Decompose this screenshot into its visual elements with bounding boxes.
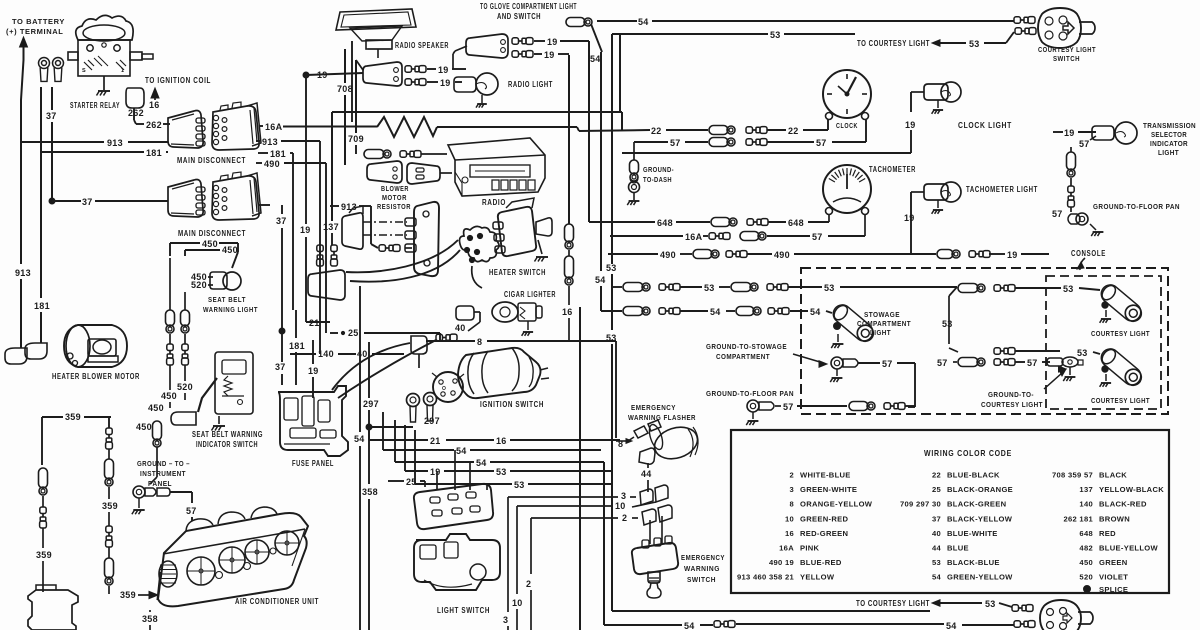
svg-text:53: 53 — [932, 558, 941, 567]
svg-text:YELLOW: YELLOW — [800, 573, 835, 582]
svg-text:53: 53 — [1077, 348, 1088, 358]
svg-text:RADIO LIGHT: RADIO LIGHT — [508, 80, 553, 89]
svg-text:358: 358 — [362, 487, 378, 497]
svg-text:O: O — [442, 386, 446, 392]
wire 53 console row — [612, 286, 622, 288]
wire 25 dotted — [330, 332, 338, 334]
seat belt warning light bulb — [223, 272, 241, 290]
svg-text:RED-GREEN: RED-GREEN — [800, 529, 848, 538]
svg-text:INDICATOR SWITCH: INDICATOR SWITCH — [196, 440, 258, 449]
resistor 709 zigzag — [377, 117, 437, 137]
svg-text:BLUE-WHITE: BLUE-WHITE — [947, 529, 998, 538]
svg-text:SELECTOR: SELECTOR — [1151, 130, 1187, 139]
arrow to battery terminal — [20, 37, 28, 47]
svg-text:PINK: PINK — [800, 544, 820, 553]
bullet connector 57 clock — [746, 139, 753, 145]
heater switch ground — [538, 240, 542, 254]
svg-text:25: 25 — [348, 328, 359, 338]
bus x620 vertical — [621, 112, 623, 130]
ignition switch plate — [433, 372, 463, 402]
svg-text:54: 54 — [595, 275, 606, 285]
svg-text:520: 520 — [177, 382, 193, 392]
wire 8 vertical — [615, 341, 617, 438]
svg-text:450: 450 — [136, 422, 152, 432]
svg-text:2: 2 — [622, 513, 627, 523]
wire 57 stowage to bottom — [858, 362, 880, 364]
svg-text:16A: 16A — [685, 232, 703, 242]
svg-text:648: 648 — [1079, 529, 1093, 538]
svg-text:GREEN-WHITE: GREEN-WHITE — [800, 485, 857, 494]
svg-text:EMERGENCY: EMERGENCY — [631, 403, 676, 412]
svg-text:137: 137 — [1079, 485, 1093, 494]
clock — [823, 70, 871, 118]
svg-text:MAIN DISCONNECT: MAIN DISCONNECT — [177, 156, 246, 165]
svg-text:57: 57 — [882, 359, 893, 369]
svg-text:709: 709 — [348, 134, 364, 144]
capsule connector 359 chain1 — [39, 468, 48, 488]
svg-text:19: 19 — [308, 366, 319, 376]
svg-text:COMPARTMENT: COMPARTMENT — [716, 352, 770, 361]
svg-text:54: 54 — [932, 573, 942, 582]
radio light ground — [481, 95, 483, 103]
svg-text:16: 16 — [785, 529, 794, 538]
bullet pair 53 bottom — [1012, 605, 1019, 611]
ground-to-dash symbol — [633, 193, 635, 200]
AC small knobs — [216, 572, 223, 579]
capsule connector 450 top — [153, 421, 162, 440]
capsule 16 b — [568, 250, 570, 256]
bullet 57 transmission — [1070, 178, 1072, 186]
wire 450 from main disconnect 2 — [169, 243, 171, 256]
wire 25 light switch — [388, 480, 404, 482]
transmission selector connector — [1092, 126, 1114, 140]
svg-text:SEAT BELT WARNING: SEAT BELT WARNING — [192, 430, 263, 439]
splice legend — [1084, 586, 1091, 593]
fuse panel fan-out curves — [332, 343, 410, 390]
bullet connector 16A — [709, 233, 716, 239]
bullet connectors below — [167, 344, 173, 351]
svg-text:WIRING COLOR CODE: WIRING COLOR CODE — [924, 448, 1012, 458]
svg-text:57: 57 — [186, 506, 197, 516]
svg-text:16: 16 — [149, 100, 160, 110]
bullet connector 19 c2 row1 — [405, 66, 412, 72]
emergency switch pin paddle 2 — [642, 509, 656, 525]
capsule connector 53 console left — [623, 283, 643, 292]
main disconnect connector A2 — [212, 106, 259, 150]
wire 54 glove diagonal — [591, 24, 602, 52]
svg-text:COURTESY LIGHT: COURTESY LIGHT — [1038, 45, 1096, 54]
heater switch body — [498, 207, 536, 256]
bullet connector 53 console left — [659, 284, 666, 290]
svg-text:44: 44 — [641, 469, 652, 479]
wire 359 into AC unit — [108, 586, 110, 594]
svg-text:2: 2 — [526, 579, 531, 589]
svg-text:40: 40 — [357, 349, 368, 359]
arrow to ignition coil — [151, 88, 159, 98]
capsule connector 57 floor pan — [849, 402, 868, 411]
svg-text:WARNING FLASHER: WARNING FLASHER — [628, 413, 696, 422]
svg-text:913 460 358 21: 913 460 358 21 — [737, 573, 794, 582]
svg-text:359: 359 — [102, 501, 118, 511]
svg-text:37: 37 — [932, 514, 941, 523]
wires light switch bundle — [368, 427, 370, 440]
wire 16A/57 row — [610, 235, 683, 237]
svg-text:BLOWER: BLOWER — [381, 184, 409, 193]
svg-text:19: 19 — [547, 37, 558, 47]
bullet 53 lower — [994, 348, 1001, 354]
svg-text:INSTRUMENT: INSTRUMENT — [140, 469, 186, 478]
clock terminals — [826, 113, 833, 120]
svg-text:TO GLOVE COMPARTMENT LIGHT: TO GLOVE COMPARTMENT LIGHT — [480, 2, 577, 11]
svg-text:19: 19 — [438, 65, 449, 75]
bullet pair 53 courtesy switch — [1015, 28, 1022, 34]
svg-text:BLACK-RED: BLACK-RED — [1099, 500, 1147, 509]
wire 54 vertical x604 lower — [603, 462, 605, 625]
stowage ground symbol — [836, 369, 838, 376]
svg-text:GREEN-YELLOW: GREEN-YELLOW — [947, 573, 1013, 582]
svg-text:708 359 57: 708 359 57 — [1052, 471, 1093, 480]
svg-text:19: 19 — [317, 70, 328, 80]
ring terminal ignition 1 — [407, 394, 420, 407]
svg-text:359: 359 — [36, 550, 52, 560]
tach light ground — [937, 200, 939, 208]
svg-text:HEATER SWITCH: HEATER SWITCH — [489, 268, 546, 277]
blower motor resistor plate — [414, 202, 439, 276]
radio connector C2 — [363, 62, 402, 86]
svg-text:648: 648 — [657, 218, 673, 228]
svg-text:TO COURTESY LIGHT: TO COURTESY LIGHT — [856, 599, 930, 608]
svg-text:10: 10 — [615, 501, 626, 511]
svg-text:57: 57 — [1052, 209, 1063, 219]
wire 54 console row — [601, 310, 622, 312]
bullet connector 359 chain2b — [106, 526, 112, 533]
heater switch toggle — [536, 218, 552, 236]
svg-text:TO BATTERY: TO BATTERY — [12, 17, 65, 26]
svg-text:37: 37 — [275, 362, 286, 372]
wires blower blob curves — [346, 240, 458, 272]
svg-text:WHITE-BLUE: WHITE-BLUE — [800, 471, 851, 480]
ring terminal floor pan console — [747, 400, 759, 412]
svg-text:262: 262 — [128, 108, 144, 118]
bullet connector 648 — [747, 219, 754, 225]
radio chassis — [448, 138, 545, 196]
elbow connector (181 end) — [25, 343, 47, 359]
wire 708 vertical — [344, 49, 346, 83]
svg-text:GREEN-RED: GREEN-RED — [800, 514, 848, 523]
wire 2 emergency — [632, 517, 638, 519]
courtesy ground connector — [1047, 358, 1063, 366]
wire 3 emergency — [630, 496, 636, 498]
stowage compartment light — [830, 301, 878, 345]
svg-text:3: 3 — [503, 615, 508, 625]
wire 137 vertical — [331, 112, 333, 221]
svg-text:10: 10 — [512, 598, 523, 608]
wire 359 chain1 — [42, 528, 44, 548]
wire 450 to indicator switch — [169, 365, 171, 390]
svg-text:BLACK-ORANGE: BLACK-ORANGE — [947, 485, 1013, 494]
junction dot 37 mid — [279, 328, 285, 334]
svg-text:57: 57 — [670, 138, 681, 148]
floor pan ground symbol top — [1090, 224, 1096, 230]
svg-text:57: 57 — [937, 358, 948, 368]
svg-text:19: 19 — [905, 120, 916, 130]
svg-text:19: 19 — [430, 467, 441, 477]
capsule connector glove compartment — [566, 18, 585, 27]
AC front edge — [163, 529, 305, 554]
courtesy light upper — [1098, 281, 1146, 325]
heater switch connector blob — [460, 226, 500, 261]
svg-text:RESISTOR: RESISTOR — [377, 202, 411, 211]
instrument panel ground symbol — [138, 498, 140, 508]
svg-text:WARNING LIGHT: WARNING LIGHT — [203, 305, 258, 314]
tach light socket — [924, 184, 948, 200]
wire 37 to main disconnect 2 — [52, 200, 81, 202]
bullet connector 53 console right — [994, 285, 1001, 291]
emergency switch plunger — [648, 572, 660, 583]
ring terminal floor pan top — [1076, 213, 1088, 225]
svg-text:53: 53 — [496, 467, 507, 477]
ring terminal ignition 2 — [424, 393, 437, 406]
svg-text:913: 913 — [15, 268, 31, 278]
svg-text:359: 359 — [120, 590, 136, 600]
radio speaker — [336, 9, 416, 30]
starter relay ground — [103, 76, 105, 90]
courtesy light lower — [1098, 345, 1146, 389]
svg-text:GREEN: GREEN — [1099, 558, 1128, 567]
emergency flasher canister — [650, 422, 701, 464]
cigar lighter ground — [527, 321, 529, 330]
air conditioner unit body — [158, 513, 308, 606]
svg-text:FUSE PANEL: FUSE PANEL — [292, 459, 334, 468]
flasher connector terminals — [634, 426, 648, 438]
svg-text:GROUND – TO –: GROUND – TO – — [137, 459, 190, 468]
svg-text:COURTESY LIGHT: COURTESY LIGHT — [981, 400, 1043, 409]
wire 8 flasher — [628, 437, 634, 441]
svg-text:54: 54 — [710, 307, 721, 317]
svg-text:140: 140 — [318, 349, 334, 359]
svg-text:BLUE-BLACK: BLUE-BLACK — [947, 471, 1000, 480]
svg-text:COMPARTMENT: COMPARTMENT — [857, 319, 911, 328]
wire 520 to indicator switch — [184, 365, 186, 381]
AC vents — [187, 557, 215, 585]
ground-to-dash ring — [629, 182, 640, 193]
wire 648 row — [589, 221, 655, 223]
transmission wire 19 — [1053, 131, 1063, 133]
svg-text:297: 297 — [363, 399, 379, 409]
svg-text:LIGHT: LIGHT — [870, 328, 891, 337]
svg-text:GROUND-TO-STOWAGE: GROUND-TO-STOWAGE — [706, 342, 787, 351]
console outer dashed box — [801, 268, 1168, 414]
wire from speaker — [351, 41, 353, 122]
svg-text:54: 54 — [946, 621, 957, 630]
svg-text:COURTESY LIGHT: COURTESY LIGHT — [1091, 329, 1150, 338]
capsule connector 53 console mid — [731, 283, 751, 292]
svg-text:TO IGNITION COIL: TO IGNITION COIL — [145, 76, 211, 85]
svg-text:VIOLET: VIOLET — [1099, 573, 1128, 582]
svg-text:8: 8 — [789, 500, 794, 509]
svg-text:53: 53 — [606, 333, 617, 343]
svg-text:913: 913 — [262, 137, 278, 147]
heater blower motor — [64, 325, 127, 367]
svg-text:913: 913 — [107, 138, 123, 148]
svg-text:19: 19 — [544, 50, 555, 60]
svg-text:AND SWITCH: AND SWITCH — [497, 12, 541, 21]
svg-text:16A: 16A — [779, 544, 794, 553]
bullet pair 54 bottom right — [1014, 621, 1021, 627]
svg-text:53: 53 — [969, 39, 980, 49]
cigar lighter body — [492, 302, 518, 322]
wire 490 row — [608, 253, 658, 255]
radio light bulb — [476, 73, 498, 95]
wire 37 right of main disconnect 2 — [259, 204, 270, 206]
svg-text:520: 520 — [1079, 573, 1093, 582]
svg-text:SWITCH: SWITCH — [687, 575, 716, 584]
clock light socket — [924, 84, 948, 100]
wire 8 horizontal — [426, 340, 475, 342]
seat belt warning light socket — [210, 272, 227, 289]
tachometer terminals — [826, 208, 833, 215]
capsule connector 57 console — [958, 358, 978, 367]
indicator switch ground — [218, 416, 220, 424]
svg-text:57: 57 — [812, 232, 823, 242]
wire 913 horizontal to main disconnect — [21, 141, 104, 143]
svg-text:16: 16 — [562, 307, 573, 317]
wire 53 top bus — [612, 33, 768, 35]
svg-text:137: 137 — [323, 222, 339, 232]
tach light wire 19 — [910, 192, 912, 254]
svg-text:2: 2 — [789, 471, 794, 480]
resistor 709 right lead — [437, 126, 577, 128]
svg-text:262: 262 — [146, 120, 162, 130]
svg-text:19: 19 — [440, 78, 451, 88]
blower resistor pins — [317, 245, 323, 252]
bullet connector 54 console mid — [768, 308, 775, 314]
svg-text:RADIO SPEAKER: RADIO SPEAKER — [395, 41, 449, 50]
capsule connector 709 row — [364, 150, 384, 159]
capsule connector 54 console left — [623, 307, 643, 316]
svg-text:TO COURTESY LIGHT: TO COURTESY LIGHT — [857, 39, 930, 48]
svg-text:709 297 30: 709 297 30 — [900, 500, 941, 509]
svg-text:490: 490 — [264, 159, 280, 169]
svg-text:54: 54 — [638, 17, 649, 27]
svg-text:22: 22 — [932, 471, 941, 480]
tach light bulb — [941, 182, 961, 202]
svg-text:37: 37 — [46, 111, 57, 121]
transmission selector bulb — [1115, 122, 1137, 144]
wire 359 bracket — [42, 416, 63, 418]
svg-text:1: 1 — [121, 68, 124, 74]
capsule connector 359 chain2 — [108, 449, 110, 459]
wire 57 clock — [634, 141, 668, 143]
bullet connector 8 — [436, 334, 443, 340]
clock light ground — [937, 100, 939, 108]
bullet connector 53 console mid — [767, 284, 774, 290]
ignition switch cylinder — [458, 348, 541, 398]
svg-text:19: 19 — [904, 213, 915, 223]
console inner dashed box — [1046, 276, 1161, 409]
svg-text:GROUND-TO-FLOOR PAN: GROUND-TO-FLOOR PAN — [706, 389, 794, 398]
ring terminal stowage ground — [831, 357, 843, 369]
svg-text:BLACK-GREEN: BLACK-GREEN — [947, 500, 1006, 509]
light switch drop wires — [436, 471, 438, 490]
wire 40 cigar lighter — [474, 311, 480, 313]
elbow connector 40 — [411, 336, 427, 354]
svg-text:22: 22 — [788, 126, 799, 136]
wire 44 flasher — [647, 463, 649, 468]
svg-text:25: 25 — [406, 477, 417, 487]
svg-text:181: 181 — [289, 341, 305, 351]
floor pan ground console — [752, 412, 754, 419]
elbow connector 262 — [126, 88, 144, 108]
ring terminal (battery feed 1) — [39, 58, 50, 69]
svg-text:GROUND-TO-FLOOR PAN: GROUND-TO-FLOOR PAN — [1093, 202, 1180, 211]
svg-text:40: 40 — [932, 529, 941, 538]
svg-text:RADIO: RADIO — [482, 198, 506, 207]
svg-text:GROUND-: GROUND- — [643, 165, 674, 174]
svg-text:37: 37 — [276, 216, 287, 226]
svg-text:YELLOW-BLACK: YELLOW-BLACK — [1099, 485, 1164, 494]
wire 37 from battery ring — [51, 87, 53, 110]
svg-text:54: 54 — [590, 54, 601, 64]
svg-text:450: 450 — [202, 239, 218, 249]
bullet pair 54 courtesy switch — [1014, 17, 1021, 23]
blower resistor connector — [308, 270, 345, 300]
clock light bulb — [941, 82, 961, 102]
svg-text:S: S — [82, 68, 86, 74]
radio connector C1 — [466, 34, 508, 58]
main disconnect connector A1 — [168, 111, 203, 149]
bus 16 vertical with capsules — [568, 55, 570, 224]
capsule connector 490 — [693, 250, 712, 259]
svg-text:57: 57 — [1079, 139, 1090, 149]
svg-text:BROWN: BROWN — [1099, 514, 1130, 523]
svg-text:25: 25 — [932, 485, 942, 494]
seat belt warning indicator switch — [215, 352, 253, 414]
svg-text:TACHOMETER: TACHOMETER — [869, 165, 916, 174]
blower resistor input connector — [342, 213, 363, 249]
wire 22 clock — [579, 130, 650, 131]
capsule connector 359 chain2b — [108, 547, 110, 558]
svg-text:359: 359 — [65, 412, 81, 422]
wire 19/708 junction — [303, 72, 309, 78]
capsule connector 53 console right — [958, 284, 978, 293]
svg-text:53: 53 — [704, 283, 715, 293]
svg-text:PANEL: PANEL — [148, 479, 172, 488]
svg-text:3: 3 — [789, 485, 794, 494]
svg-text:19: 19 — [1007, 250, 1018, 260]
svg-text:648: 648 — [788, 218, 804, 228]
junction dot ignition — [366, 424, 372, 430]
bullet connector 709 row — [400, 151, 407, 157]
svg-text:490 19: 490 19 — [769, 558, 794, 567]
wire 53 row2 — [414, 430, 416, 484]
svg-text:BLUE-YELLOW: BLUE-YELLOW — [1099, 544, 1159, 553]
svg-text:520: 520 — [191, 280, 207, 290]
wire 181 vertical — [40, 152, 42, 298]
svg-text:708: 708 — [337, 84, 353, 94]
bullet connector 490 — [726, 251, 733, 257]
svg-text:54: 54 — [684, 621, 695, 630]
capsule connector 57 clock — [709, 138, 728, 147]
wire 54 top bus — [597, 20, 637, 22]
svg-text:450: 450 — [148, 403, 164, 413]
starter relay body — [76, 15, 133, 40]
svg-text:CONSOLE: CONSOLE — [1071, 249, 1106, 258]
svg-text:37: 37 — [82, 197, 93, 207]
junction dot 37 — [49, 198, 55, 204]
bus line 112 — [332, 111, 622, 113]
svg-text:54: 54 — [810, 307, 821, 317]
